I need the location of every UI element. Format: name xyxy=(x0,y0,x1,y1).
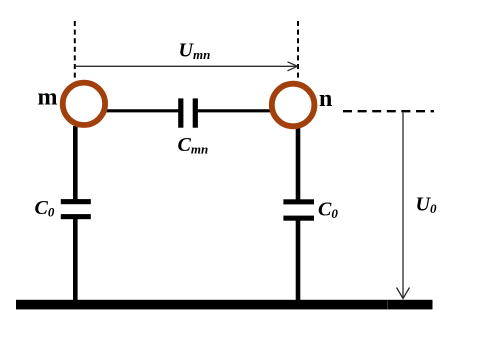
svg-text:U0: U0 xyxy=(416,194,437,216)
wire: C0 left bottom plate to ground bar xyxy=(73,219,78,301)
svg-text:m: m xyxy=(38,84,58,110)
wire: U0 arrow shaft xyxy=(402,113,404,298)
wire: Umn dimension arrow shaft xyxy=(75,65,297,67)
capacitor Cmn: right plate xyxy=(193,98,198,127)
wire: node m down to C0 top plate xyxy=(73,126,78,200)
ground bar xyxy=(16,300,433,310)
node m guide: dashed vertical line above node m xyxy=(74,21,76,80)
svg-text:n: n xyxy=(319,86,332,112)
node n: terminal circle xyxy=(272,84,315,127)
wire: node m to Cmn left plate xyxy=(95,109,179,112)
capacitor C0 left: top plate xyxy=(61,199,91,204)
svg-text:Umn: Umn xyxy=(179,40,211,62)
wire: Cmn right plate to node n xyxy=(198,109,281,112)
node m: terminal circle xyxy=(63,83,105,125)
node n guide: dashed vertical line above node n xyxy=(297,21,299,80)
svg-text:C0: C0 xyxy=(318,199,338,221)
wire: Umn arrowhead xyxy=(288,62,298,71)
ground bar seam xyxy=(387,301,389,310)
svg-text:C0: C0 xyxy=(35,197,55,219)
wire: C0 right bottom plate to ground bar xyxy=(296,220,301,301)
capacitor Cmn: left plate xyxy=(178,98,183,127)
capacitor C0 left: bottom plate xyxy=(61,214,91,219)
capacitor C0 right: bottom plate xyxy=(283,216,314,221)
svg-text:Cmn: Cmn xyxy=(178,134,209,156)
wire: node n down to C0 top plate xyxy=(296,127,301,200)
wire: U0 arrowhead xyxy=(397,288,410,299)
node n reference: dashed horizontal line to U0 arrow xyxy=(343,110,434,112)
capacitor C0 right: top plate xyxy=(283,199,314,204)
